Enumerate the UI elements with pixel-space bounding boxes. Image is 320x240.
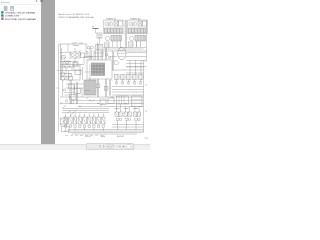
wire M2 drop lines (130, 41, 137, 48)
wire fine web left (60, 44, 90, 97)
wire cylinder drops (118, 121, 137, 130)
sidebar panel (0, 0, 41, 144)
check valve circles under M1 (87, 46, 90, 49)
white page (55, 0, 150, 144)
zoom dropdown (127, 145, 133, 149)
bookmark icon: electrical (pink) (1, 18, 3, 20)
relief cartridge circles mid (86, 51, 88, 53)
relief valve block R1 (117, 96, 129, 104)
valve block V2a (138, 21, 142, 26)
wire center pair (125, 20, 126, 48)
spool hatch band M1 (105, 28, 123, 33)
swivel joint SJ (118, 47, 126, 59)
wire bank bottom drops (66, 128, 104, 131)
wire right riser set (130, 61, 141, 75)
strainer box T2 (62, 127, 70, 132)
pilot pump circle (68, 74, 71, 77)
wire bus y103 (60, 103, 144, 105)
wire CV risers (90, 42, 107, 60)
cylinder group C1 (115, 112, 118, 117)
label dashes cooler (72, 43, 83, 46)
wire under M1 links (95, 51, 103, 57)
manifold block under M1 (96, 45, 103, 51)
wire feed line y108 (62, 108, 109, 110)
wire right border lower (143, 60, 145, 132)
wire mid drops (66, 65, 83, 81)
wire pump suction (60, 61, 74, 72)
control valve CV main block (87, 60, 112, 79)
cylinder group port circles second (119, 118, 121, 120)
bookmark icon: hydraulic (teal) (1, 11, 3, 13)
tank box T1 (61, 118, 68, 125)
inline valve on riser (96, 84, 100, 88)
svg-text:4/117: 4/117 (107, 145, 114, 149)
label dashes under bank (65, 135, 103, 137)
wire right bus pair upper (126, 53, 147, 68)
note label near node A (93, 28, 99, 30)
wire diag pilot left (60, 102, 66, 109)
shuttle block (gray) (84, 80, 96, 95)
brake valve B1 block (111, 36, 122, 42)
bottom nav toolbar (86, 143, 134, 150)
bottom status bar (0, 144, 150, 150)
wire bus y97 (60, 96, 144, 98)
sidebar toolbar icon 1 (4, 7, 7, 11)
wire engine links (75, 44, 87, 58)
small valve mid-left a (73, 63, 77, 67)
travel motor M1 enclosure (104, 20, 125, 34)
wire top-right bus y50 (103, 50, 147, 52)
cylinder group C3 (134, 112, 137, 117)
nav prev arrow (99, 145, 100, 147)
CV dense spool cluster (92, 63, 105, 76)
nav next arrow (103, 145, 104, 147)
wire PV1 links (96, 29, 100, 45)
solenoid valve S3 (70, 95, 77, 100)
wire M1 drop lines (106, 41, 113, 48)
cylinder group C2 (124, 112, 127, 117)
sidebar header button 2 (40, 0, 41, 1)
pilot valve PV1 (97, 33, 102, 38)
motor M1 circle a (105, 22, 109, 26)
small valve mid-left b (68, 77, 73, 81)
motor M2 circle b (132, 22, 136, 26)
cooler box with gauges (70, 52, 80, 58)
wire right border upper (146, 20, 148, 60)
bookmark icon: connectors (teal) (1, 14, 3, 16)
sidebar toolbar icon 2 (11, 7, 14, 11)
solenoid valve S1 (69, 84, 75, 89)
zoom plus (123, 146, 125, 148)
tank return manifold lines (64, 130, 144, 135)
filter box F1 (62, 56, 66, 60)
wire bank feed lines (62, 111, 109, 113)
gray canvas gutter (41, 0, 55, 144)
spool hatch band M2 (129, 28, 147, 33)
wire aux drops (110, 80, 144, 96)
wire mid horizontals (60, 71, 82, 81)
zoom minus (119, 145, 121, 147)
wire bus y106 (78, 106, 144, 108)
motor M1 circle b (108, 22, 112, 26)
check valve box (81, 53, 85, 58)
wire swivel feeders (110, 51, 117, 71)
relief valve block R2 (132, 96, 143, 107)
valve block V1b (119, 21, 123, 26)
oil cooler X box (64, 61, 70, 67)
solenoid valve S2 (75, 89, 81, 94)
wire left feeder (60, 57, 84, 67)
wire cyl risers (117, 104, 140, 112)
pilot arrows (67, 110, 77, 117)
wire cluster downs (98, 79, 107, 97)
pilot filter circle (114, 60, 118, 64)
gauge circles mid (105, 53, 108, 56)
wire bus y47 (103, 48, 146, 50)
machine outline left wire (57, 44, 88, 131)
aux valve row AV1..AV4 (115, 75, 144, 80)
wire y56 bus (84, 56, 103, 58)
valve bank port circles (64, 125, 104, 128)
wire left risers low (63, 81, 84, 98)
wire cyl bus (112, 125, 144, 128)
pilot diagonal marks mid (86, 97, 103, 107)
main control valve bank sections (64, 117, 105, 124)
relief valve circle left (66, 62, 69, 65)
sidebar header button 1 (36, 0, 37, 1)
motor M2 circle a (129, 22, 133, 26)
aux valve port circles (115, 81, 142, 84)
brake valve B2 block (135, 36, 146, 42)
wire bank risers (66, 114, 104, 118)
pump P circle 1 (61, 72, 65, 76)
wire y52 (60, 48, 80, 62)
brake valve B2 circle (130, 37, 134, 41)
wire pump risers (105, 41, 141, 48)
solenoid block SB (75, 70, 81, 75)
travel motor M2 enclosure (128, 20, 148, 34)
page number box (107, 145, 114, 149)
accumulator circle (70, 100, 73, 103)
wire bus y100 (72, 100, 144, 102)
valve block V1a (114, 21, 118, 26)
cylinder group C1 hatch (115, 112, 141, 117)
junction dots on buses (69, 96, 126, 107)
junction manifold small rect a (100, 99, 106, 105)
wire right buses (112, 61, 147, 74)
valve block V2b (143, 21, 147, 26)
label dash cyl group 2 (124, 108, 129, 110)
label dash cyl group 1 (115, 108, 120, 110)
pump P circle 2 (61, 77, 65, 81)
canvas top-left resize nub (41, 0, 42, 2)
circle junction left (63, 89, 65, 91)
wire vertical pair left (61, 44, 62, 80)
junction manifold small rect b (108, 98, 114, 104)
label dash cyl group 3 (133, 108, 138, 110)
brake valve B1 circle (106, 37, 110, 41)
pilot line pair left (70, 80, 78, 104)
